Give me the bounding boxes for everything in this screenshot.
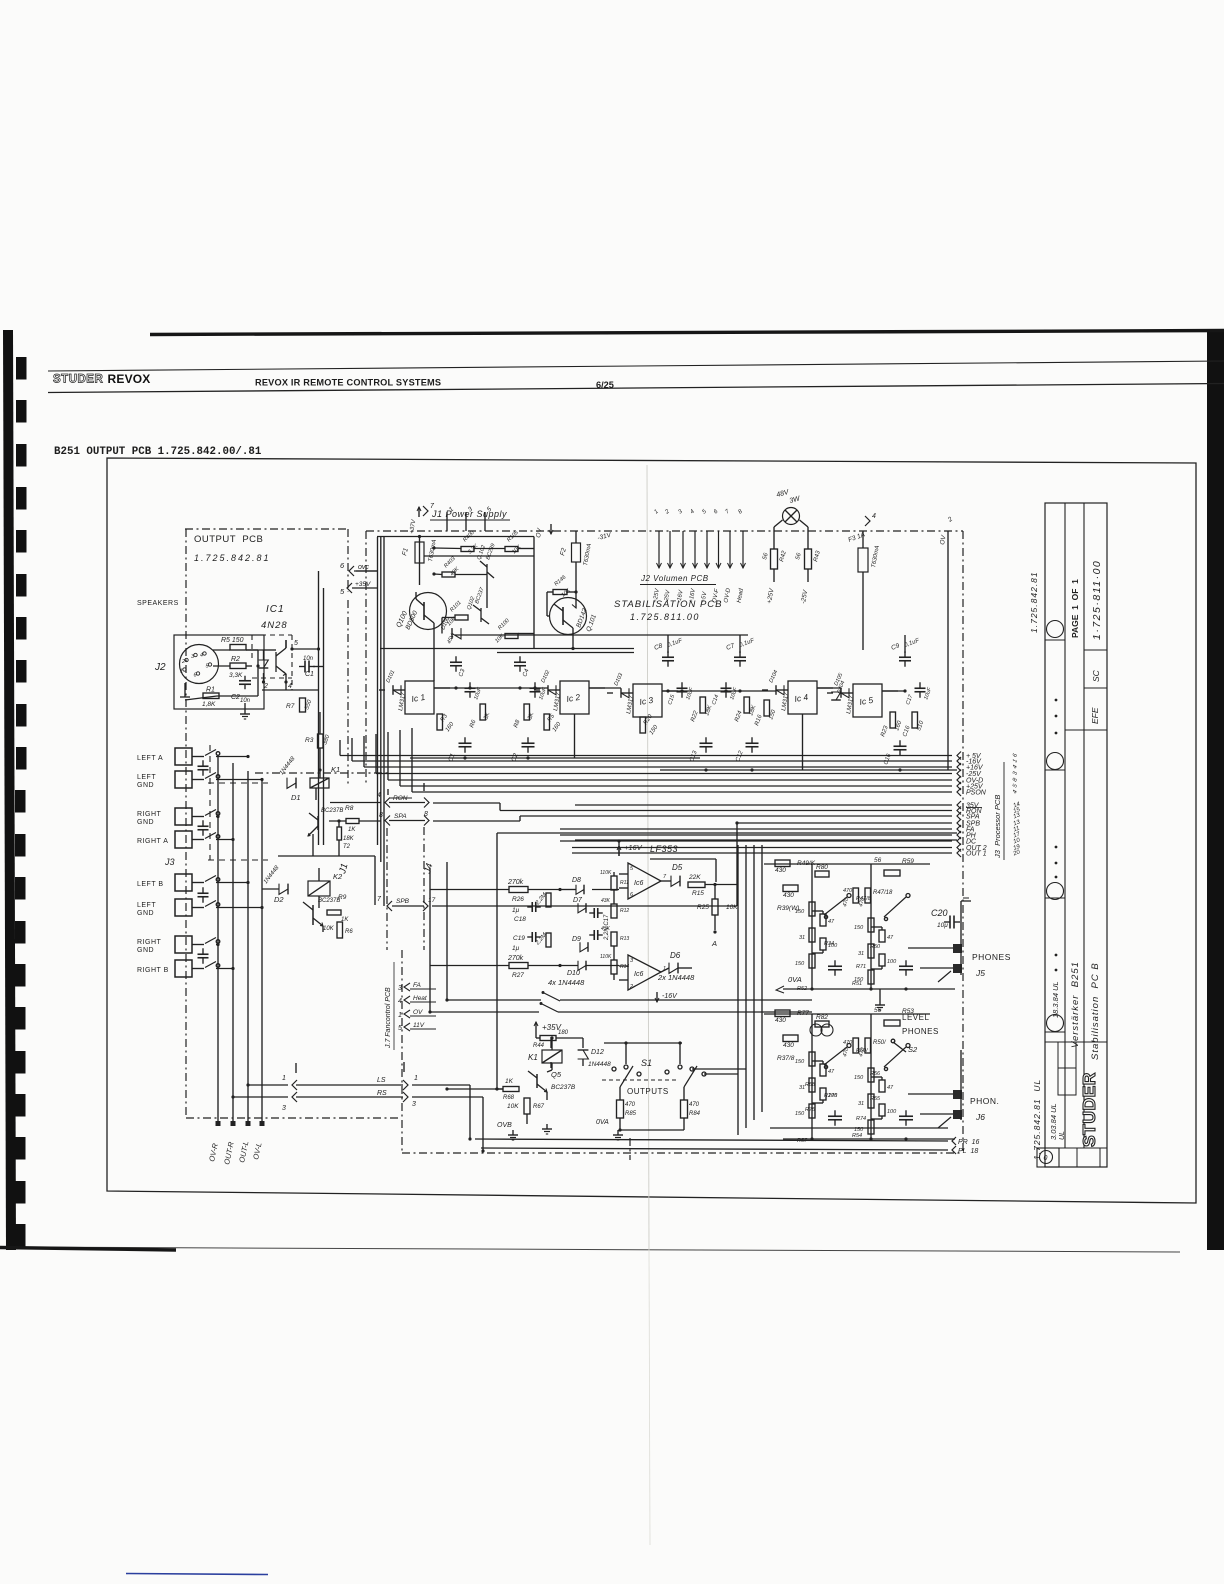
left binding bar <box>3 330 16 1250</box>
svg-text:R55: R55 <box>870 1096 881 1102</box>
resistor R43 56 <box>805 549 812 569</box>
svg-text:PHONES: PHONES <box>972 952 1011 962</box>
wire loop rail <box>497 832 957 834</box>
svg-text:J2: J2 <box>154 662 166 673</box>
phones driver grid lower <box>764 1013 930 1015</box>
svg-text:BC237B: BC237B <box>551 1084 576 1091</box>
resistor R5 160 <box>544 714 550 730</box>
svg-text:18K: 18K <box>343 836 355 842</box>
svg-text:2: 2 <box>629 984 633 990</box>
schematic frame <box>107 458 1196 1203</box>
regulator output rail <box>434 687 548 689</box>
svg-text:17: 17 <box>428 897 436 904</box>
title block divider above logo <box>1045 1041 1107 1043</box>
svg-text:PAGE 1 OF 1: PAGE 1 OF 1 <box>1070 579 1080 638</box>
ground mid right <box>879 989 881 1000</box>
wire Q101 nets <box>547 591 553 593</box>
svg-text:150: 150 <box>795 961 805 967</box>
resistor R6 10K <box>337 922 343 938</box>
svg-text:LEVEL: LEVEL <box>902 1013 929 1022</box>
power mesh wires <box>434 547 461 550</box>
resistor R8 1K <box>346 819 359 824</box>
svg-text:GND: GND <box>137 782 154 789</box>
svg-text:R50: R50 <box>870 944 881 950</box>
svg-text:47: 47 <box>828 919 835 925</box>
regulator top feed <box>667 635 669 653</box>
svg-text:Verstärker B251: Verstärker B251 <box>1070 961 1081 1048</box>
label +25V lamp <box>773 569 775 582</box>
long feed wires <box>377 537 379 845</box>
svg-text:150: 150 <box>795 1059 805 1065</box>
lamp wires <box>774 520 783 527</box>
svg-text:R37/8: R37/8 <box>777 1055 795 1062</box>
wires S1 <box>619 1087 621 1100</box>
svg-text:+35V: +35V <box>355 581 371 588</box>
svg-text:R15: R15 <box>692 890 704 897</box>
resistor R30 2,2M <box>546 893 551 907</box>
wire opto out <box>285 640 287 648</box>
svg-text:5: 5 <box>398 1025 402 1032</box>
capacitor CB bottom <box>746 742 759 744</box>
connector J2 Volumen pins <box>658 531 660 568</box>
resistor R16 150 <box>764 700 770 716</box>
svg-text:R59: R59 <box>902 858 914 865</box>
svg-text:R13: R13 <box>620 936 629 942</box>
svg-text:R26: R26 <box>512 896 524 903</box>
regulator Ic1 LM317 <box>405 681 434 714</box>
top rule <box>150 331 1224 335</box>
svg-text:R44: R44 <box>533 1043 545 1049</box>
svg-text:ovc: ovc <box>358 564 369 571</box>
svg-text:R84: R84 <box>689 1111 701 1117</box>
svg-text:2,2N C17: 2,2N C17 <box>604 914 610 941</box>
svg-text:R67: R67 <box>533 1104 545 1110</box>
svg-text:R9: R9 <box>338 894 347 901</box>
label +16V <box>618 846 620 856</box>
resistor R11 110K <box>611 876 617 890</box>
transistor Q100 BD500 <box>410 593 447 630</box>
PR 16 line <box>475 1139 948 1141</box>
resistor R7 550 <box>300 698 306 712</box>
power rails bottom <box>380 648 634 650</box>
svg-text:A: A <box>711 939 717 948</box>
jack J5 <box>953 944 962 953</box>
svg-text:C2: C2 <box>231 694 240 701</box>
revision zero bubble <box>1037 1148 1059 1167</box>
resistor R400 3,3K <box>461 547 474 552</box>
svg-text:R54: R54 <box>852 1133 862 1139</box>
fuse F3 1A <box>858 548 868 572</box>
wire chevron links <box>313 666 324 668</box>
svg-text:R47/18: R47/18 <box>873 890 893 896</box>
resistor R22 18K <box>700 697 706 713</box>
svg-text:SPA: SPA <box>966 814 980 821</box>
svg-text:4: 4 <box>872 513 876 520</box>
svg-text:OUTPUT PCB: OUTPUT PCB <box>194 534 263 545</box>
svg-text:UL: UL <box>1059 1131 1066 1140</box>
svg-text:S2: S2 <box>908 1045 918 1054</box>
svg-text:Ic6: Ic6 <box>634 971 643 978</box>
svg-text:1.725.842.81: 1.725.842.81 <box>1029 571 1039 633</box>
svg-text:OUTPUTS: OUTPUTS <box>627 1087 669 1096</box>
wire Ic 3 in/out <box>607 692 613 694</box>
transistor Q5 BC237B <box>536 1074 538 1088</box>
label -16V <box>656 992 658 1002</box>
speaker switch contacts <box>192 756 204 758</box>
svg-text:GND: GND <box>137 819 154 826</box>
diode D7 <box>578 903 586 913</box>
svg-text:100: 100 <box>887 959 897 965</box>
pins 1 3 5 top <box>446 512 448 531</box>
svg-text:RIGHT: RIGHT <box>137 811 162 818</box>
wire Ic 5 in/out <box>827 692 833 694</box>
title block bottom cells <box>1058 1042 1076 1095</box>
svg-text:10K: 10K <box>726 904 738 911</box>
output PCB outline (dash-dot) <box>185 528 348 530</box>
relay K2 <box>308 881 330 896</box>
switch S1 <box>612 1067 616 1071</box>
svg-text:1: 1 <box>282 1075 286 1082</box>
svg-text:REVOX IR REMOTE CONTROL SYSTEM: REVOX IR REMOTE CONTROL SYSTEMS <box>255 378 441 388</box>
svg-text:R7: R7 <box>286 703 295 710</box>
wire Ic 4 in/out <box>762 689 768 691</box>
capacitor C8 0,1uF <box>662 656 674 658</box>
chevron SPB right <box>423 901 428 911</box>
svg-text:LEFT: LEFT <box>137 774 156 781</box>
bottom blue mark <box>126 1574 268 1575</box>
wire LS <box>248 1084 288 1086</box>
header band top rule <box>48 361 1224 371</box>
svg-text:8: 8 <box>379 812 383 819</box>
op-amp IC6a <box>628 863 661 899</box>
svg-text:4N28: 4N28 <box>261 620 288 631</box>
svg-text:BC237B: BC237B <box>318 898 340 904</box>
svg-text:1: 1 <box>414 1075 418 1082</box>
transistor Q102 BC237 <box>480 608 482 622</box>
svg-text:Stabilisation PC B: Stabilisation PC B <box>1090 962 1101 1060</box>
regulator Ic3 LM317 <box>633 684 662 717</box>
svg-text:Ic6: Ic6 <box>634 880 643 887</box>
svg-text:R14: R14 <box>620 964 629 970</box>
svg-text:31: 31 <box>858 951 864 957</box>
svg-text:R2: R2 <box>231 656 240 663</box>
svg-text:56: 56 <box>874 1007 882 1014</box>
resistor R12 43K <box>611 904 617 918</box>
svg-text:4: 4 <box>398 998 402 1005</box>
svg-text:1,8K: 1,8K <box>202 701 216 708</box>
diode D404 <box>831 692 841 700</box>
svg-text:RS: RS <box>377 1090 387 1097</box>
resistor R15 22K <box>688 882 705 888</box>
svg-text:31: 31 <box>858 1101 864 1107</box>
svg-text:+16V: +16V <box>624 843 643 852</box>
diode D10 <box>578 961 586 971</box>
svg-text:47: 47 <box>887 935 894 941</box>
svg-text:J.7 Fancontrol PCB: J.7 Fancontrol PCB <box>385 987 392 1049</box>
capacitor CA bottom <box>700 742 713 744</box>
svg-text:STUDER: STUDER <box>1079 1072 1099 1147</box>
svg-text:270k: 270k <box>507 955 524 962</box>
svg-text:470: 470 <box>843 888 853 894</box>
optocoupler LED <box>259 660 269 668</box>
svg-text:PHON.: PHON. <box>970 1096 999 1106</box>
svg-text:R27: R27 <box>512 972 524 979</box>
wire +37V rail <box>377 536 534 538</box>
capacitor C19 1u <box>531 932 533 942</box>
svg-text:1: 1 <box>180 669 183 675</box>
svg-text:R75: R75 <box>805 1107 816 1113</box>
svg-text:D8: D8 <box>572 877 581 884</box>
wire feed vertical a <box>446 862 448 1000</box>
wire -31V <box>575 531 577 536</box>
svg-text:R85: R85 <box>625 1111 637 1117</box>
svg-text:150: 150 <box>854 1075 864 1081</box>
resistor R5 150 <box>230 645 246 651</box>
title block cell rules right column <box>1084 649 1107 651</box>
resistor R42 56 <box>771 549 778 569</box>
svg-text:22K: 22K <box>688 874 701 881</box>
wire switch line upper <box>447 999 541 1001</box>
svg-text:110K: 110K <box>600 870 612 876</box>
fuse F2 T630mA <box>572 543 581 562</box>
svg-text:LF353: LF353 <box>650 844 678 854</box>
svg-text:10μ: 10μ <box>937 922 948 929</box>
capacitor C16 bottom <box>894 745 907 747</box>
svg-text:1: 1 <box>398 1012 402 1019</box>
svg-text:18.3.84 UL: 18.3.84 UL <box>1051 981 1060 1018</box>
bus wires to processor (supplies) <box>340 755 952 757</box>
svg-text:R50/: R50/ <box>856 1048 868 1054</box>
svg-text:Heat: Heat <box>413 995 428 1002</box>
svg-text:470: 470 <box>625 1102 636 1108</box>
connector J4 boundary line (dash-dot) <box>629 1138 631 1160</box>
svg-text:2: 2 <box>181 659 185 665</box>
wire top rails to stab <box>356 570 378 572</box>
wire Ic 1 in/out <box>379 689 385 691</box>
svg-text:PL 18: PL 18 <box>958 1148 978 1155</box>
svg-text:GND: GND <box>137 947 154 954</box>
svg-text:STUDER: STUDER <box>53 374 103 386</box>
svg-text:R68: R68 <box>503 1095 515 1101</box>
capacitor C15 10uF <box>677 687 688 689</box>
resistor R3 380 <box>318 734 324 748</box>
title block outline and revision column <box>1045 503 1107 1167</box>
svg-text:J3: J3 <box>164 857 175 867</box>
svg-text:SPB: SPB <box>396 898 410 905</box>
svg-text:430: 430 <box>783 892 794 899</box>
regulator Ic2 LM317 <box>560 681 589 714</box>
svg-text:RIGHT: RIGHT <box>137 939 162 946</box>
wire R3 feed <box>319 712 321 734</box>
svg-text:FA: FA <box>413 982 421 989</box>
svg-text:R25: R25 <box>697 904 709 911</box>
svg-text:4: 4 <box>288 683 292 690</box>
svg-text:1K: 1K <box>505 1078 514 1085</box>
svg-text:0VA: 0VA <box>788 975 802 984</box>
capacitor C18 1u <box>531 902 533 912</box>
wire rail y840 <box>575 839 957 841</box>
resistor R13 43K <box>611 932 617 946</box>
svg-text:R82: R82 <box>816 1014 828 1021</box>
svg-text:OUT 1: OUT 1 <box>966 851 987 858</box>
resistor R85 470 <box>617 1100 624 1118</box>
svg-text:4x 1N4448: 4x 1N4448 <box>548 978 585 987</box>
resistor R7b 18K <box>337 827 342 840</box>
input net wires <box>560 889 576 891</box>
diode D8 <box>576 885 584 895</box>
svg-text:R6: R6 <box>345 929 353 935</box>
svg-text:R8: R8 <box>345 805 354 812</box>
capacitor C4 cluster <box>514 661 526 663</box>
capacitor C1 bottom <box>459 742 472 744</box>
svg-text:1·725·811·00: 1·725·811·00 <box>1091 560 1103 640</box>
optocoupler phototransistor <box>275 652 277 672</box>
svg-text:J2 Volumen PCB: J2 Volumen PCB <box>640 574 709 583</box>
svg-text:LS: LS <box>377 1077 386 1084</box>
svg-text:R77: R77 <box>797 1010 809 1017</box>
wires K2 cluster <box>322 926 324 932</box>
svg-text:C1: C1 <box>305 671 314 678</box>
svg-text:OV: OV <box>413 1009 423 1016</box>
svg-text:R47/8: R47/8 <box>856 896 872 902</box>
speaker filter caps <box>198 765 209 767</box>
capacitor C2 bottom <box>522 742 535 744</box>
diode D9 <box>580 942 588 952</box>
svg-text:31: 31 <box>799 935 805 941</box>
resistor R44 180 <box>540 1036 556 1041</box>
regulator vertical joins <box>574 714 576 758</box>
svg-text:3,3K: 3,3K <box>229 672 243 679</box>
capacitor C2 <box>239 680 251 682</box>
svg-text:B251 OUTPUT PCB 1.725.842.00/.: B251 OUTPUT PCB 1.725.842.00/.81 <box>54 446 262 458</box>
svg-text:IC1: IC1 <box>266 604 285 615</box>
resistor R14 110K <box>611 960 617 974</box>
svg-text:0VA: 0VA <box>596 1119 609 1126</box>
svg-text:1.725.842.81: 1.725.842.81 <box>194 553 271 563</box>
svg-text:D12: D12 <box>591 1049 604 1056</box>
resistor R31 2,2M <box>546 933 551 947</box>
connector J2 housing <box>174 635 264 709</box>
transistor Q2 <box>312 905 314 925</box>
wire RS <box>233 1096 288 1098</box>
svg-text:R3: R3 <box>305 737 314 744</box>
svg-text:11V: 11V <box>413 1022 425 1029</box>
speaker connector squares J2/J3 <box>175 748 192 765</box>
bus wires to processor (signals) <box>575 804 952 806</box>
capacitor C14 10uF <box>721 687 732 689</box>
gang pot symbol <box>810 1024 822 1036</box>
label OV pin2 <box>947 531 949 770</box>
svg-text:470: 470 <box>843 1040 853 1046</box>
wire opto top <box>246 649 264 651</box>
svg-text:3: 3 <box>398 985 402 992</box>
bottom rule thin <box>0 1247 1180 1252</box>
wire feed vertical b <box>429 868 431 1012</box>
svg-text:D9: D9 <box>572 936 581 943</box>
svg-text:OVB: OVB <box>497 1122 512 1129</box>
svg-text:10K: 10K <box>507 1103 519 1110</box>
relay K1 phones <box>542 1050 562 1063</box>
wire R1/C2 net <box>217 695 258 697</box>
resistor R24b 510 <box>912 712 918 728</box>
svg-text:1μ: 1μ <box>512 907 520 914</box>
svg-text:R71: R71 <box>856 964 866 970</box>
svg-text:150: 150 <box>854 925 864 931</box>
svg-text:R34: R34 <box>824 941 834 947</box>
resistor R84 470 <box>681 1100 688 1118</box>
node A <box>713 930 716 933</box>
svg-text:RIGHT A: RIGHT A <box>137 838 168 845</box>
svg-text:-16V: -16V <box>662 993 678 1000</box>
wire +35V vertical <box>323 588 325 845</box>
svg-text:D7: D7 <box>573 897 583 904</box>
phones driver grid upper <box>764 863 930 865</box>
svg-text:R12: R12 <box>620 908 629 914</box>
op-amp IC6b <box>628 955 661 990</box>
svg-text:SC: SC <box>1091 669 1101 682</box>
wire OVC vertical <box>318 571 320 845</box>
resistor R1 1,8K <box>203 693 219 699</box>
svg-text:10n: 10n <box>303 656 314 662</box>
resistor R8 3K <box>524 704 530 720</box>
svg-text:BC237B: BC237B <box>321 808 343 814</box>
svg-text:4: 4 <box>200 653 203 659</box>
capacitor C9 0,1uF <box>899 656 911 658</box>
fuse F1 T630mA <box>415 542 424 563</box>
svg-text:430: 430 <box>775 867 786 874</box>
svg-text:PR 16: PR 16 <box>958 1139 980 1146</box>
label 0VA k1 <box>546 1124 548 1129</box>
resistor R68 1K <box>503 1087 519 1092</box>
svg-text:J5: J5 <box>975 968 985 978</box>
resistor R23 160 <box>890 712 896 728</box>
sprocket holes column <box>16 357 27 380</box>
svg-text:D2: D2 <box>274 895 284 904</box>
bottom rule thick segment <box>0 1248 176 1251</box>
chevron SPA right <box>424 816 429 826</box>
wire F1 to Q100 <box>419 563 421 585</box>
svg-text:S1: S1 <box>641 1058 652 1068</box>
capacitor C1 10n <box>304 661 306 673</box>
svg-text:270k: 270k <box>507 879 524 886</box>
svg-text:R11: R11 <box>620 880 629 886</box>
right binding bar <box>1207 332 1224 1250</box>
diode D6 <box>669 963 678 974</box>
svg-text:430: 430 <box>775 1017 786 1024</box>
svg-text:PHONES: PHONES <box>902 1027 939 1036</box>
title block bottom row cells <box>1059 1147 1107 1149</box>
svg-text:D1: D1 <box>291 793 301 802</box>
svg-text:J3 Processor PCB: J3 Processor PCB <box>993 795 1002 859</box>
svg-text:R5 150: R5 150 <box>221 637 244 644</box>
svg-text:RON: RON <box>393 795 408 802</box>
svg-text:LEFT: LEFT <box>137 902 156 909</box>
svg-text:C19: C19 <box>513 935 525 942</box>
relay K1 <box>310 778 329 788</box>
wire J2 pin4 to R5 <box>213 649 230 651</box>
resistor R3 160 <box>437 714 443 730</box>
chevron RON right <box>424 798 429 808</box>
resistor R6 3K <box>480 704 486 720</box>
J2 cluster ground <box>244 703 246 709</box>
capacitor C21 <box>593 908 595 918</box>
speaker column terminals <box>216 1121 221 1126</box>
svg-text:5: 5 <box>294 640 298 647</box>
svg-text:1μ: 1μ <box>512 945 520 952</box>
svg-text:RIGHT B: RIGHT B <box>137 967 169 974</box>
capacitor C17 10uF <box>915 687 926 689</box>
resistor R105 10K <box>505 547 518 552</box>
